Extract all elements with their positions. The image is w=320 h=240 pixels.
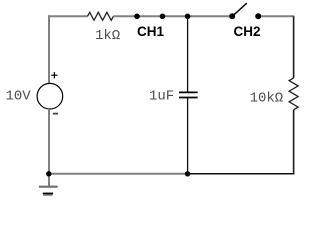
resistor R2 zigzag vertical (289, 78, 298, 110)
capacitor C1 bottom plate (179, 97, 198, 99)
svg-text:10V: 10V (6, 88, 32, 104)
capacitor C1 top plate (179, 91, 198, 93)
switch CH2 left contact (229, 13, 235, 19)
ground bar 2 (43, 193, 53, 195)
ground stub (48, 174, 50, 186)
ground bar 1 (39, 186, 58, 188)
wire right vertical upper (to resistor R2) (293, 16, 295, 78)
node capacitor bottom junction (185, 171, 190, 176)
wire top middle (resistor to switch) (113, 15, 232, 17)
ground bar 3 (43, 194, 53, 196)
switch CH2 right contact (255, 13, 261, 19)
switch CH2 blade (232, 3, 247, 16)
wire top-left horizontal (source to resistor) (48, 15, 88, 17)
wire bottom right horizontal (188, 173, 295, 175)
node capacitor top junction (185, 13, 191, 19)
node CH1 dot left (134, 13, 140, 19)
capacitor C1 bottom lead (187, 98, 189, 174)
svg-text:1kΩ: 1kΩ (95, 28, 120, 44)
wire bottom left horizontal (49, 173, 188, 175)
wire right vertical lower (293, 110, 295, 175)
wire top-right horizontal (switch to right branch) (258, 15, 294, 17)
voltage source V1 circle (37, 83, 63, 109)
svg-text:10kΩ: 10kΩ (250, 91, 284, 107)
plus sign (51, 74, 57, 76)
capacitor C1 top lead (187, 16, 189, 92)
resistor R1 zigzag (88, 12, 114, 20)
svg-text:CH2: CH2 (234, 24, 261, 39)
wire left vertical above source (48, 15, 50, 84)
node ground junction dot (46, 171, 51, 176)
svg-text:1uF: 1uF (149, 89, 174, 105)
node CH1 dot right (160, 13, 166, 19)
svg-text:CH1: CH1 (137, 24, 164, 39)
minus sign (53, 113, 58, 115)
wire left vertical below source (48, 109, 50, 174)
